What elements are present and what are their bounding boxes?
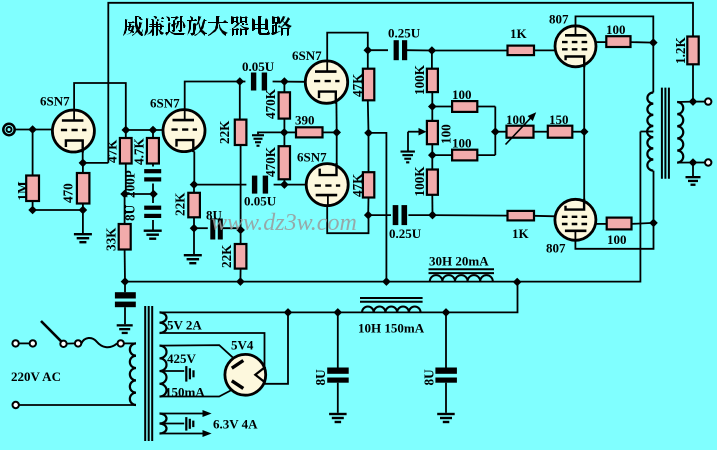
svg-text:807: 807 [549,12,569,27]
wire 8U bypass right [223,228,241,230]
capacitor C 8U (filter a) [327,368,349,374]
svg-text:0.25U: 0.25U [388,26,421,41]
resistor R 1K (V6 grid stopper) [508,211,535,221]
wire screen res to plate node V6 [632,223,654,224]
wire secondary bottom lead [677,162,693,164]
svg-text:8U: 8U [422,369,437,386]
resistor R 100 (V6 screen) [607,218,632,230]
wire secondary ground lead [692,163,694,177]
transformer T1 primary winding [130,343,136,405]
resistor R 1.2K (feedback) [687,37,698,65]
node secondary bottom [689,158,698,167]
wire 8U-b ground lead [445,383,447,413]
node V4 grid [280,180,289,189]
capacitor C 8U (splitter feed bypass) [210,219,215,240]
node 22K/8U junction [190,224,199,233]
node input/1M junction [28,125,37,134]
resistor R 4.7K (compensation) [147,138,159,164]
node 200P/8U junction [149,190,158,199]
wire OPT centre tap to B+ rail [125,132,640,282]
resistor R 100 (upper mix) [452,101,477,112]
wire output terminal top [693,101,705,103]
wire 100 lower leads [432,154,452,156]
wire 200P bottom [152,184,154,195]
wire fuse to primary [124,342,136,344]
wire reservoir to ground [124,307,126,324]
node rail B+ entry [513,278,522,287]
terminal fuse a [75,340,81,346]
wire 150 to cathode line [572,131,584,133]
wire V5 plate loop [576,16,654,42]
ground output secondary [686,176,701,178]
svg-text:30H 20mA: 30H 20mA [429,254,489,269]
ground filter b [437,413,455,415]
wire to 8U decoupler [152,194,154,203]
wire ground link 1M-470 [33,209,83,211]
node balance top [428,102,437,111]
fuse F squiggle [81,338,117,347]
svg-text:0.05U: 0.05U [244,194,277,209]
capacitor C 0.25U (bottom) [393,205,399,225]
wire driver B+ to rail [369,133,387,282]
node 807 V6 grid [428,211,437,220]
svg-text:390: 390 [295,113,315,128]
resistor R 33K (B+ dropper) [119,224,131,250]
svg-text:5V4: 5V4 [231,338,254,353]
node secondary top [689,97,698,106]
node rail at 22K [236,277,245,286]
svg-text:100: 100 [452,136,472,151]
resistor R 100K (V5 grid leak) [427,69,438,92]
resistor R 22K (V2 plate load) [235,120,247,145]
svg-text:47K: 47K [350,73,365,97]
node driver B+ feed [364,129,373,138]
wire 470K top leads [283,82,285,93]
resistor R 100 (lower mix) [452,150,477,161]
capacitor C 0.05U (to V3 grid) [251,73,256,91]
node V3 plate [364,46,373,55]
resistor R 100K (V6 grid leak) [427,170,438,195]
svg-text:100K: 100K [412,166,427,197]
wire 100 upper leads [432,106,452,108]
tube V1 6SN7 (input amplifier) [52,110,94,152]
node V1 plate [122,126,131,135]
wiper arrow to pot [408,131,420,133]
node V6 plate/screen [649,219,658,228]
choke L2 10H 150mA [362,307,421,313]
capacitor C 8U (first stage decoupling) [144,206,161,210]
wire 33K bottom to B+ rail [124,250,126,282]
tube V2 6SN7 (phase splitter) [163,110,205,152]
ground filter a [329,413,347,415]
arrow 6.3V top [203,410,212,417]
wire to switch [19,342,30,344]
ground 6.3V centre tap (sideways) [185,417,187,431]
svg-text:470: 470 [61,183,76,203]
wire 390 left lead [284,131,296,133]
wire OPT centre tap [640,131,653,133]
wire 807 common cathode line [583,57,585,204]
svg-text:8U: 8U [313,369,328,386]
resistor R 22K (splitter B+ dropper) [235,244,247,269]
wire 6.3V top lead [160,413,205,415]
wire reservoir cap lead [124,282,126,293]
wire centre to ground [258,132,284,134]
svg-text:425V: 425V [167,351,197,366]
svg-text:470K: 470K [263,146,278,177]
wire 8U-b top lead [445,312,447,367]
svg-text:220V AC: 220V AC [11,369,61,384]
wire V1 cathode lead [82,152,84,163]
wire screen res to plate node [631,41,654,44]
node V4 plate [364,211,373,220]
wire 47K V3 leads [367,50,369,68]
resistor R 150 (cathode bias) [548,126,573,138]
wire cathode to 470 [82,163,84,173]
wire V1 plate to 47K node [74,83,126,130]
wire 1K to V5 grid [534,49,556,51]
choke L1 30H 20mA [430,275,493,281]
ground below 470 [74,233,92,235]
capacitor C 8U (filter b) [435,368,457,374]
resistor R 1K (V5 grid stopper) [508,46,535,56]
node mix centre [491,127,500,136]
ground 425V centre tap (sideways) [185,366,187,382]
wire 100K top leads [431,51,433,69]
node V2 plate [236,77,245,86]
wire 390 right lead [323,131,337,133]
svg-text:22K: 22K [217,120,232,144]
wire V2 cathode lead [193,152,195,185]
svg-text:47K: 47K [350,173,365,197]
wire 22K cathode leads [193,185,195,193]
node 47K bottom (B+ feed V1) [120,190,129,199]
tube V4 6SN7 (driver, inverted) [306,164,348,206]
tube V6 807 (output, bottom, inverted) [555,199,596,240]
wire cathode to 0.05U lower [194,184,246,186]
wire 8U-a top lead [337,312,339,367]
ground pot wiper [401,151,415,153]
wire 100K bottom leads [431,155,433,169]
wire 4.7K to 200P [152,130,154,138]
wire plate node to 0.05U [240,81,246,83]
wire V4 plate loop [327,206,368,234]
svg-text:22K: 22K [219,244,234,268]
rheostat arrow [506,116,534,145]
resistor R 22K (V2 cathode) [188,193,200,218]
wire 5V bottom lead to rectifier [160,333,265,366]
wire 425V top lead [160,345,233,357]
resistor R 100 (V5 screen) [606,36,630,47]
wire V3 plate loop [327,33,368,62]
wire negative-feedback rail from V1 cathode to 1.2K (top) [108,3,693,163]
wire output terminal bottom [693,162,705,164]
wire feed link [125,193,154,195]
terminal fuse b [118,340,124,346]
resistor R 47K (V1 plate load) [120,138,132,164]
wire input to V1 grid [15,129,53,131]
node grid-leak centre [280,128,289,137]
wire V6 plate loop [575,223,653,249]
ground V2 cathode [184,254,202,256]
resistor R 390 (common cathode) [296,127,323,137]
wire 8U bypass left [194,227,208,229]
wire 47K leads [125,130,127,138]
wire V6 grid node to 1K [433,214,508,217]
node balance bottom [428,151,437,160]
wire V2 plate lead up [185,82,240,111]
tube V7 5V4 rectifier [225,354,266,395]
wire 8U to ground [152,220,154,230]
transformer T1 6.3V winding [160,414,167,434]
resistor R 470K (V4 grid leak) [279,146,290,179]
node V3 grid [280,77,289,86]
svg-text:100: 100 [606,22,626,37]
wire 0.25U to 807 grid node [407,49,432,51]
node rectifier output [284,308,293,317]
ground reservoir [117,324,133,326]
wire V4 plate to 0.25U [368,214,391,216]
svg-text:6SN7: 6SN7 [297,150,327,165]
wire neutral to primary [19,404,136,406]
terminal switch a [30,340,36,346]
svg-text:100: 100 [452,87,472,102]
wire 1M bottom to ground link [32,201,34,210]
wire 1.2K bottom lead [692,64,694,101]
wire plate node to OPT primary top [652,43,654,93]
svg-text:100: 100 [607,232,627,247]
wire wiper to ground [407,132,409,151]
wire 5V top lead (B+ output) [160,311,289,313]
svg-text:6SN7: 6SN7 [150,96,180,111]
input jack J1 [3,124,14,135]
wire 470K bottom leads [283,132,285,146]
wire plate node to V2 grid [126,129,163,131]
wire mix to 100 rheostat [495,131,506,133]
resistor R 47K (V4 plate load) [363,172,374,197]
svg-text:1M: 1M [15,181,30,201]
terminal output top [705,98,711,104]
node rail at driver feed [382,277,391,286]
wire 1K to V6 grid [534,215,556,218]
wire 425V bottom lead [160,390,232,397]
svg-text:150: 150 [549,112,569,127]
transformer T2 primary winding [647,93,653,171]
node rail left end [121,277,130,286]
node V2 cathode [190,180,199,189]
tube V5 807 (output, top) [555,26,596,67]
svg-text:1.2K: 1.2K [673,37,688,64]
wire mix join [494,107,496,156]
terminal output bottom [705,159,711,165]
wire V3 cathode lead [335,102,337,133]
capacitor C 0.05U (to V4 grid) [252,176,257,194]
svg-text:1K: 1K [510,26,528,41]
node 807 cathodes [580,127,589,136]
node V1 cathode junction [79,159,88,168]
title 威廉逊放大器电路 [123,16,292,36]
capacitor C 0.25U (top) [394,40,399,60]
node 807 V5 grid [428,46,437,55]
svg-text:www.dz3w.com: www.dz3w.com [211,210,357,236]
wire V5 screen lead [596,41,606,43]
wire switch to fuse [67,342,75,344]
svg-text:1K: 1K [512,226,530,241]
svg-text:100K: 100K [412,64,427,95]
wire 6.3V centre tap [160,423,185,425]
wire 47K V4 bottom lead [367,198,369,216]
svg-text:100: 100 [506,112,526,127]
wire 22K dropper bottom [239,269,241,282]
svg-text:5V 2A: 5V 2A [167,318,202,333]
wire 0.05U to V3 grid node [273,81,306,83]
node filter cap 1 [334,308,343,317]
node 1M bottom [28,206,37,215]
wire 425V centre tap [160,370,185,372]
wire 6.3V bottom lead [160,433,205,435]
resistor R 1M [26,176,39,202]
svg-text:22K: 22K [173,192,188,216]
ground below 8U [144,230,162,232]
wire grid node to 1K top [432,50,508,52]
potentiometer R 100 (hum balance) [427,121,438,144]
wire V6 screen lead [596,223,607,225]
node 4.7K top [149,126,158,135]
wire 1M top lead [32,130,34,176]
wire rheostat to 150 [534,131,548,133]
wire V3 plate to 0.25U [368,49,388,51]
wire 47K V4 top lead [368,133,370,172]
svg-text:6SN7: 6SN7 [40,94,70,109]
wire cathodes to V4 [336,132,338,167]
ground grid-leak centre [252,134,264,136]
svg-text:4.7K: 4.7K [132,138,147,165]
wire NFB rail into V1 cathode [83,162,108,164]
resistor R 47K (V3 plate load) [363,69,374,101]
svg-text:33K: 33K [104,227,119,251]
wire 0.25U to 807 V6 grid node [408,214,432,216]
capacitor C reservoir [115,292,136,298]
resistor R 470K (V3 grid leak) [279,92,290,118]
node filter cap 2 [442,308,451,317]
transformer T1 425V winding [160,346,167,397]
wire secondary top lead [677,101,693,103]
switch S blade [41,321,62,342]
wire feed to 22K dropper [240,230,242,244]
svg-text:10H 150mA: 10H 150mA [358,321,425,336]
resistor R 470 (V1 cathode) [77,173,90,204]
transformer T1 core [144,306,146,441]
capacitor C 200P [144,169,161,173]
svg-text:0.25U: 0.25U [389,226,422,241]
terminal mains neutral [13,402,19,408]
svg-text:6SN7: 6SN7 [292,48,322,63]
svg-text:47K: 47K [105,139,120,163]
wire B+ riser [288,282,518,312]
node driver cathodes [332,128,341,137]
svg-text:6.3V 4A: 6.3V 4A [213,417,258,432]
wire 5V4 filament right lead [264,312,288,383]
wire pot leads [431,107,433,121]
transformer T2 secondary winding [677,102,683,163]
wire 8U-a ground lead [337,383,339,413]
wire plate node to OPT primary bottom [653,171,655,223]
node splitter B+ feed [236,226,245,235]
rheostat R 100 (bias balance) [507,126,534,138]
arrow 6.3V bottom [203,430,212,437]
node V5 plate/screen [649,38,658,47]
wire 22K plate-load leads [239,82,241,120]
svg-text:807: 807 [546,241,566,256]
svg-text:0.05U: 0.05U [242,59,275,74]
tube V3 6SN7 (driver) [305,61,347,103]
node 470 bottom junction [79,206,88,215]
terminal switch b [60,341,66,347]
transformer T2 core [661,88,663,179]
svg-text:470K: 470K [263,88,278,119]
transformer T1 5V winding [160,312,167,333]
wire 33K top lead [124,194,126,224]
wire 0.05U to V4 grid node [274,184,307,186]
terminal mains live [12,340,18,346]
wire 470 bottom [82,204,84,234]
